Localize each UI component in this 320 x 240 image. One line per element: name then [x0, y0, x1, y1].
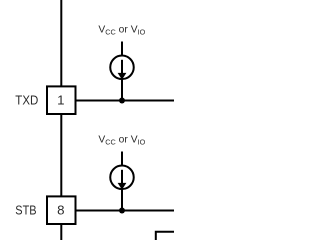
wire (lead from current source I2 to STB net) — [121, 188, 123, 211]
pin box 8 (STB) — [47, 196, 76, 224]
pin box 1 (TXD) — [47, 86, 76, 114]
wire (horizontal from pin 8 to right edge) — [76, 210, 175, 212]
current source I1 (circle with down arrow) — [110, 56, 134, 80]
svg-text:1: 1 — [57, 93, 64, 108]
current source I2 (circle with down arrow) — [110, 166, 134, 190]
svg-text:VCC or VIO: VCC or VIO — [98, 135, 145, 147]
wire (lead from VCC label to current source I1) — [121, 42, 123, 57]
wire (left vertical, between pin 1 and pin 8) — [60, 114, 62, 196]
svg-text:8: 8 — [57, 203, 64, 218]
wire (left vertical, below pin 8) — [60, 224, 62, 240]
junction (STB net) — [119, 208, 125, 214]
svg-text:STB: STB — [15, 203, 36, 218]
svg-text:VCC or VIO: VCC or VIO — [98, 25, 145, 37]
wire (horizontal from pin 1 to right edge) — [76, 100, 175, 102]
block corner (partial box, bottom right) — [156, 232, 174, 240]
wire (left vertical, top segment into pin 1) — [60, 0, 62, 86]
junction (TXD net) — [119, 98, 125, 104]
svg-text:TXD: TXD — [15, 93, 38, 108]
wire (lead from current source I1 to TXD net) — [121, 78, 123, 101]
wire (lead from VCC label to current source I2) — [121, 152, 123, 167]
